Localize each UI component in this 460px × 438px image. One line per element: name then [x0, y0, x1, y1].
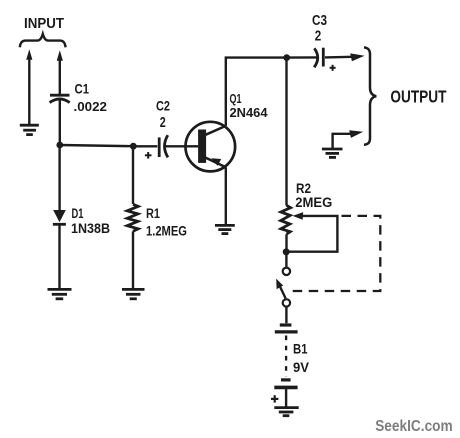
svg-text:.0022: .0022 [74, 99, 108, 114]
switch S1 blade arrow [276, 279, 283, 290]
wire node B to R1 [132, 146, 134, 204]
wire R2 bottom to node D [285, 234, 287, 253]
svg-text:OUTPUT: OUTPUT [390, 86, 446, 106]
wire node D to switch [285, 252, 287, 267]
wire battery to ground [285, 389, 287, 407]
svg-text:R2: R2 [296, 180, 311, 196]
svg-text:INPUT: INPUT [24, 16, 64, 32]
node C junction [283, 54, 290, 61]
resistor R1 [127, 204, 138, 231]
wire node B to C2 [133, 145, 157, 147]
switch S1 blade [279, 285, 286, 299]
ground (D1) [48, 289, 72, 298]
svg-text:2MEG: 2MEG [295, 195, 332, 210]
svg-text:SeekIC.com: SeekIC.com [375, 418, 453, 435]
ground (R1) [122, 289, 145, 298]
ground (output) [322, 149, 343, 157]
switch S1 terminal (lower) [283, 299, 290, 306]
R2 wiper arrow [293, 212, 304, 220]
input terminal arrow (right) [59, 59, 61, 94]
wire node C to C3 [287, 56, 319, 59]
input brace [20, 34, 66, 47]
R2 wiper arm [287, 216, 338, 252]
svg-text:B1: B1 [293, 342, 308, 357]
wire D1 to ground [58, 224, 60, 289]
output brace [364, 47, 376, 144]
wire switch to battery [285, 307, 287, 323]
battery B1 [274, 325, 297, 387]
svg-text:C3: C3 [312, 13, 327, 29]
capacitor C2 [159, 135, 168, 157]
diode D1 [53, 210, 66, 224]
C2 polarity + [145, 152, 152, 159]
svg-text:1N38B: 1N38B [71, 221, 110, 236]
ground (Q1 emitter) [215, 225, 235, 233]
output terminal arrow (bottom) [349, 130, 363, 138]
output terminal arrow (top) [350, 53, 364, 61]
svg-text:C1: C1 [75, 81, 90, 96]
C3 polarity + [330, 65, 336, 71]
node B junction [130, 143, 137, 150]
wire node A to D1 [58, 146, 60, 211]
mechanical linkage (dashed) [291, 216, 381, 291]
resistor R2 [281, 205, 291, 234]
capacitor C3 [314, 48, 323, 68]
node D junction [283, 248, 290, 255]
svg-text:R1: R1 [146, 206, 160, 221]
input terminal arrow (left) [28, 58, 30, 125]
ground (input left) [20, 125, 39, 134]
svg-text:Q1: Q1 [230, 91, 242, 106]
svg-text:C2: C2 [156, 99, 170, 114]
switch S1 terminal (upper) [283, 268, 290, 275]
svg-text:1.2MEG: 1.2MEG [146, 223, 187, 238]
wire R1 to ground [132, 231, 134, 289]
wire C1 to node A [59, 100, 61, 146]
wire output lower terminal [333, 134, 351, 148]
ground (battery) [274, 408, 298, 416]
battery polarity + [271, 395, 278, 402]
svg-text:2: 2 [315, 28, 322, 44]
transistor Q1 [186, 122, 236, 172]
capacitor C1 [50, 95, 70, 102]
svg-text:9V: 9V [293, 360, 309, 375]
wire node C down to R2 [285, 58, 287, 206]
node A junction [56, 142, 63, 149]
svg-text:2: 2 [160, 115, 166, 131]
svg-text:D1: D1 [72, 206, 84, 221]
svg-text:2N464: 2N464 [230, 105, 269, 120]
wire node A to node B [60, 145, 134, 146]
wire Q1 emitter down [225, 167, 227, 225]
wire C2 to Q1 base [165, 145, 199, 147]
wire Q1 collector up [226, 58, 287, 126]
wire C3 to output arrow [325, 56, 352, 59]
